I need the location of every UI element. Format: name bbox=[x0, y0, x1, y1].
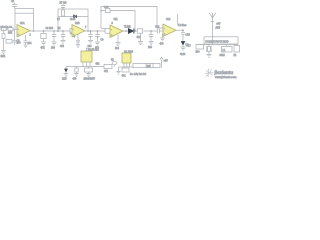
svg-text:U1A: U1A bbox=[20, 22, 25, 25]
resistor R1 vertical to ground bbox=[2, 29, 5, 50]
capacitor C5 to ground bbox=[60, 30, 66, 48]
svg-text:7: 7 bbox=[85, 27, 87, 29]
svg-text:C2: C2 bbox=[11, 1, 15, 3]
wire U2A output bbox=[123, 30, 129, 32]
capacitor C6 above feedback 2 bbox=[61, 4, 65, 9]
svg-text:4: 4 bbox=[74, 37, 76, 39]
svg-text:4148: 4148 bbox=[70, 19, 76, 21]
svg-text:1: 1 bbox=[30, 35, 32, 37]
svg-text:Q1 9014: Q1 9014 bbox=[124, 52, 134, 54]
text label R5 bbox=[58, 28, 62, 30]
resistor R11 box below Q1 bbox=[122, 68, 130, 78]
svg-text:ANT: ANT bbox=[216, 27, 221, 30]
svg-text:+3V: +3V bbox=[216, 24, 221, 26]
wire feedback 2 right riser bbox=[87, 17, 89, 32]
svg-text:104: 104 bbox=[17, 43, 22, 45]
svg-text:L1: L1 bbox=[223, 50, 226, 52]
svg-text:U1B: U1B bbox=[75, 23, 80, 25]
svg-text:C13: C13 bbox=[155, 27, 160, 29]
svg-text:470: 470 bbox=[73, 79, 78, 81]
capacitor C2 feedback bbox=[11, 1, 17, 8]
svg-text:MK1: MK1 bbox=[1, 56, 6, 58]
wire feedback right riser bbox=[33, 13, 35, 31]
resistor R4 to ground bbox=[41, 30, 47, 50]
svg-text:C3 104: C3 104 bbox=[46, 28, 54, 30]
resistor R0 input box bbox=[2, 28, 7, 31]
power label +3V bbox=[216, 24, 221, 26]
watermark logo bbox=[205, 69, 213, 78]
wire input line bbox=[0, 28, 17, 30]
svg-text:TL0 Rao: TL0 Rao bbox=[178, 25, 188, 27]
svg-text:C9: C9 bbox=[101, 40, 105, 42]
resistor R2 bbox=[8, 28, 13, 35]
wire power bus A bbox=[66, 66, 112, 68]
svg-text:47K: 47K bbox=[41, 48, 46, 50]
node circle K1 bbox=[111, 59, 117, 66]
svg-text:473: 473 bbox=[60, 46, 65, 48]
resistor R3 feedback box bbox=[15, 9, 34, 14]
wire U1A output to U1B bbox=[30, 28, 72, 33]
capacitor C13 series bbox=[155, 27, 163, 34]
wire diode to box bbox=[133, 30, 137, 32]
svg-text:104: 104 bbox=[115, 48, 120, 50]
capacitor C12 to ground bbox=[148, 30, 154, 49]
svg-text:3: 3 bbox=[112, 23, 114, 25]
node junction output U1B bbox=[87, 30, 89, 32]
resistor R8 series box bbox=[137, 29, 144, 45]
antenna ANT1 bbox=[209, 13, 221, 45]
ground below C13 bbox=[160, 34, 165, 46]
resistor R10 to ground bbox=[73, 67, 79, 81]
svg-text:472: 472 bbox=[122, 76, 127, 78]
svg-text:104: 104 bbox=[88, 46, 93, 48]
text label C3 bbox=[46, 28, 54, 30]
diode D1 in feedback 2 bbox=[57, 15, 77, 21]
svg-text:471: 471 bbox=[104, 71, 109, 73]
op-amp U1A bbox=[17, 22, 32, 37]
capacitor C1 to ground bbox=[13, 29, 22, 45]
svg-text:DC12BH FM-TX MOD: DC12BH FM-TX MOD bbox=[206, 42, 229, 44]
svg-text:10K: 10K bbox=[8, 33, 13, 35]
transistor Q1 bbox=[122, 52, 134, 68]
text label C9 bbox=[101, 40, 105, 42]
op-amp U2A bbox=[110, 19, 131, 38]
regulator U3 bbox=[81, 48, 99, 67]
svg-text:B+ 4.5V AC-DC: B+ 4.5V AC-DC bbox=[130, 73, 147, 76]
wire to C12 bbox=[144, 30, 158, 32]
capacitor C10 inner feedback bbox=[101, 7, 110, 13]
svg-text:100uF/16V: 100uF/16V bbox=[84, 79, 96, 81]
svg-text:78L05 A01: 78L05 A01 bbox=[88, 49, 100, 52]
capacitor C8 to ground bbox=[88, 30, 94, 48]
svg-text:103: 103 bbox=[51, 48, 56, 50]
svg-text:104: 104 bbox=[196, 52, 201, 54]
svg-text:C17: C17 bbox=[187, 46, 192, 48]
svg-text:www.jixiantu.com: www.jixiantu.com bbox=[215, 75, 237, 79]
svg-text:X1: X1 bbox=[234, 55, 238, 57]
capacitor C11 below U2A to ground bbox=[115, 35, 121, 51]
capacitor C17 bbox=[187, 45, 204, 54]
wire feedback left riser bbox=[14, 13, 16, 29]
wire feedback 2 left riser bbox=[57, 17, 59, 32]
svg-text:401: 401 bbox=[96, 64, 101, 66]
op-amp U2B bbox=[163, 19, 187, 37]
wire feedback 3 outer bbox=[101, 7, 163, 29]
svg-text:C11: C11 bbox=[114, 19, 119, 21]
power supply arrow bbox=[160, 57, 168, 67]
resistor R6 feedback box 2 bbox=[58, 9, 88, 17]
svg-text:4148: 4148 bbox=[180, 54, 186, 56]
capacitor C9 to ground bbox=[95, 30, 100, 50]
svg-text:470: 470 bbox=[160, 44, 165, 46]
svg-text:C7: C7 bbox=[57, 19, 61, 21]
svg-text:9018: 9018 bbox=[220, 55, 226, 57]
capacitor C3 to ground bbox=[51, 30, 57, 50]
svg-text:C14: C14 bbox=[166, 19, 171, 21]
node junction output U1A bbox=[33, 30, 35, 32]
wire stub above U2B bbox=[177, 14, 179, 24]
diode D4 to ground bbox=[62, 67, 68, 81]
resistor R9 box bbox=[234, 45, 240, 57]
op-amp U1B bbox=[70, 23, 87, 37]
node MIC input labels bbox=[1, 27, 13, 29]
capacitor C4 below op-amp to ground bbox=[17, 35, 33, 48]
svg-text:103: 103 bbox=[148, 47, 153, 49]
watermark text bbox=[214, 70, 238, 79]
svg-text:104: 104 bbox=[28, 43, 33, 45]
wire U2B output bbox=[176, 29, 183, 31]
capacitor C20 below U1B to ground bbox=[74, 35, 81, 48]
capacitor C19 box bbox=[96, 64, 113, 74]
battery holder box bbox=[133, 64, 160, 69]
svg-text:C10: C10 bbox=[104, 7, 109, 9]
module box title bbox=[204, 37, 238, 44]
diode D2 bbox=[127, 27, 134, 34]
svg-text:C15: C15 bbox=[186, 35, 191, 37]
wire inner feedback to output bbox=[110, 11, 135, 31]
crystal Y1 bbox=[207, 45, 212, 58]
svg-text:+6V: +6V bbox=[164, 61, 169, 63]
node junction fb3 bbox=[100, 10, 101, 11]
capacitor C18 box to ground bbox=[84, 67, 96, 81]
diode D3 to ground bbox=[180, 42, 189, 57]
resistor R7 inside feedback bbox=[60, 3, 67, 17]
wire U1B output to U2A bbox=[85, 28, 110, 33]
wire bottom-right bus bbox=[196, 44, 238, 46]
svg-text:LED: LED bbox=[62, 79, 67, 81]
ground bbox=[1, 40, 13, 59]
text battery labels bbox=[130, 73, 147, 76]
wire bus B bbox=[119, 66, 134, 68]
capacitor C15 output to ground bbox=[181, 29, 190, 41]
inductor L1 box bbox=[220, 45, 233, 57]
ground bus B left bbox=[116, 67, 120, 74]
